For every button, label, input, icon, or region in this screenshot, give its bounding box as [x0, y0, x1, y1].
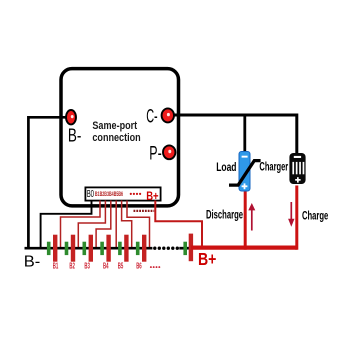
dotted continuation of sense wires: [134, 210, 155, 212]
wire: B1 sense: [61, 201, 101, 248]
wire: B6 sense: [127, 201, 150, 248]
wire: B3 sense: [96, 201, 111, 248]
svg-text:B2: B2: [69, 262, 75, 271]
balance connector J1: [85, 187, 160, 200]
svg-text:B+: B+: [146, 189, 158, 203]
svg-text:B-: B-: [24, 254, 41, 271]
svg-text:B5: B5: [118, 262, 124, 271]
svg-text:Same-port: Same-port: [92, 120, 137, 132]
svg-text:Discharge: Discharge: [206, 210, 243, 222]
terminal P- (red pad): [163, 145, 175, 159]
svg-text:B0: B0: [87, 189, 95, 200]
wire: C- to top bus and charger drop: [172, 115, 297, 154]
terminal C- (red pad): [162, 108, 174, 122]
svg-text:C-: C-: [146, 106, 158, 127]
wire: discharge riser: [244, 191, 247, 250]
wire: B- terminal to left rail: [28, 116, 71, 119]
cell B3: [83, 242, 87, 255]
svg-text:B6: B6: [136, 262, 142, 271]
BMS board U1: [61, 69, 179, 206]
wire: charge riser: [295, 186, 298, 250]
svg-text:B1B2B3B4B5B6: B1B2B3B4B5B6: [95, 191, 123, 198]
svg-text:Charger: Charger: [259, 159, 288, 173]
battery string rail (black): [25, 247, 153, 250]
wire: left rail vertical (B- bus): [27, 116, 30, 248]
svg-text:Load: Load: [216, 160, 236, 174]
cell B4: [100, 242, 104, 255]
load LD1 (blue body): [239, 152, 250, 192]
cell B6: [136, 242, 140, 255]
svg-text:B+: B+: [198, 249, 216, 269]
svg-text:B4: B4: [103, 262, 109, 271]
svg-text:B1: B1: [53, 262, 59, 271]
load switch lever: [229, 161, 261, 186]
svg-text:connection: connection: [92, 132, 141, 144]
wire: B4 sense: [115, 201, 117, 248]
wire: load drop from top bus: [243, 115, 246, 152]
wire: B5 sense: [122, 201, 132, 248]
B+ power bus (red): [191, 246, 297, 250]
svg-text:Charge: Charge: [302, 209, 329, 223]
last cell (B+ end): [183, 242, 187, 255]
svg-text:P-: P-: [149, 144, 161, 165]
wire: B+ sense to bus: [155, 201, 202, 248]
svg-text:B-: B-: [68, 124, 82, 145]
cell B1: [47, 242, 51, 255]
wire: B2 sense: [78, 201, 105, 248]
wire: B0 sense (black): [41, 201, 92, 248]
cell B2: [65, 242, 69, 255]
battery string ellipsis dots: [153, 247, 156, 250]
cell B5: [118, 242, 122, 255]
svg-text:B3: B3: [84, 262, 90, 271]
charger CH1 (black body): [289, 153, 305, 184]
connector ellipsis dots: [130, 193, 132, 195]
terminal B- (red pad): [66, 110, 76, 124]
charge arrow (down): [290, 202, 292, 220]
discharge arrow (up): [251, 209, 253, 231]
cell label ellipsis: [150, 266, 152, 268]
